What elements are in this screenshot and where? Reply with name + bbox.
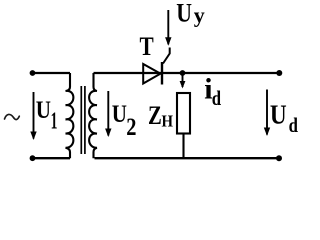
transformer T1 secondary winding: [89, 73, 97, 158]
svg-text:H: H: [162, 112, 174, 131]
resistor Zн load rectangle: [177, 93, 190, 134]
svg-text:y: y: [194, 2, 206, 27]
current arrow id: [182, 74, 184, 87]
svg-text:U: U: [270, 100, 287, 130]
svg-text:2: 2: [126, 114, 136, 141]
svg-text:U: U: [36, 97, 51, 124]
transformer T1 primary winding: [66, 73, 74, 158]
wire secondary bottom: [95, 157, 280, 159]
voltage arrow U1: [33, 92, 35, 139]
svg-text:1: 1: [51, 109, 58, 135]
thyristor VS1 triangle anode: [143, 64, 160, 84]
node dot left bottom terminal: [30, 155, 36, 161]
node dot output bottom right: [276, 155, 282, 161]
node dot load junction: [180, 70, 186, 76]
svg-text:d: d: [289, 113, 299, 137]
thyristor cathode bar: [161, 62, 163, 85]
voltage arrow U2: [107, 91, 109, 136]
node dot left top terminal: [30, 70, 36, 76]
svg-text:d: d: [212, 86, 222, 110]
svg-text:U: U: [112, 101, 127, 128]
node dot output top right: [276, 70, 282, 76]
wire load bottom: [182, 134, 184, 159]
svg-text:U: U: [176, 0, 192, 28]
wire secondary top: [94, 72, 281, 74]
wire primary bottom: [32, 157, 70, 159]
AC source tilde symbol: [5, 114, 20, 119]
svg-text:T: T: [140, 32, 154, 61]
control arrow Uy: [167, 10, 169, 44]
wire primary top: [32, 72, 70, 74]
transformer core lines: [80, 86, 82, 154]
thyristor gate lead: [163, 48, 170, 64]
voltage arrow Ud: [266, 90, 268, 135]
svg-text:Z: Z: [148, 101, 162, 130]
